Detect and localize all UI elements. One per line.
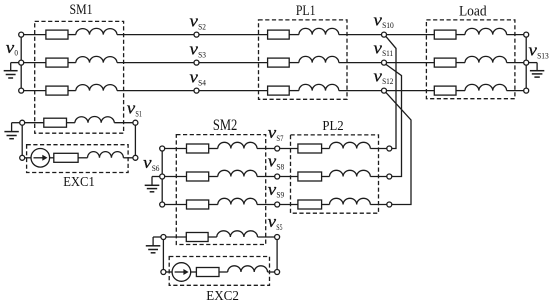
node label v0 (6, 38, 18, 58)
wire: ground G5 drop (152, 237, 154, 246)
svg-text:EXC1: EXC1 (63, 175, 95, 190)
wire: PL2 R2 to L2 (322, 176, 330, 178)
wire: node vS2 to PL1 phase 1 (199, 34, 268, 36)
svg-text:S4: S4 (198, 78, 206, 87)
resistor Load R2 (434, 58, 456, 67)
inductor SM1 L1 (76, 28, 117, 34)
svg-text:S8: S8 (276, 162, 284, 171)
inductor SM2 L3 (218, 198, 257, 204)
inductor SM2 field Lf (217, 231, 258, 237)
wire: SM1 phase 2 lead-in (21, 62, 46, 64)
wire: vS6 to ground G3 (152, 176, 160, 178)
wire: node vS8 to PL2 phase 2 (280, 176, 298, 178)
wire: PL2 phase 1 tie to node vS10 (386, 36, 396, 148)
svg-text:Load: Load (459, 3, 487, 20)
svg-text:PL2: PL2 (322, 119, 343, 134)
resistor PL2 R3 (298, 200, 322, 209)
node vS13 terminal phase 1 (524, 32, 529, 37)
wire: PL2 phase 1 output (370, 148, 387, 150)
wire: Load phase 1 to right bus vS13 (507, 34, 527, 36)
wire: SM1 phase 1 output to node vS2 (117, 34, 194, 36)
svg-text:SM2: SM2 (213, 117, 237, 134)
wire: EXC1 left terminal to source (25, 157, 31, 159)
svg-text:S12: S12 (382, 77, 393, 86)
wire: SM2 phase 2 output to node vS8 (257, 176, 275, 178)
inductor PL2 L1 (330, 142, 371, 148)
wire: v0 to ground G1 (11, 62, 19, 64)
node vS6 terminal phase 2 (160, 174, 165, 179)
node label vS10 (374, 10, 394, 30)
resistor PL2 R1 (298, 144, 322, 153)
resistor EXC1 Re (54, 153, 78, 162)
wire: node vS10 to Load phase 1 (387, 34, 435, 36)
node: PL2 phase 2 output terminal (387, 174, 392, 179)
wire: PL2 R3 to L3 (322, 204, 330, 206)
wire: SM1 field output to node vS1 (114, 122, 133, 124)
wire: PL2 phase 3 tie to node vS12 (386, 92, 411, 204)
node: PL2 phase 3 output terminal (387, 202, 392, 207)
inductor PL2 L3 (330, 198, 371, 204)
dashed box: synchronous machine SM1 (35, 21, 124, 133)
dashed box: power line PL2 (291, 135, 379, 213)
resistor Load R3 (434, 86, 456, 95)
dashed box: exciter EXC1 (27, 145, 129, 173)
wire: SM2 field left terminal down to EXC2 (162, 240, 164, 270)
wire: SM2 phase 1 lead-in (162, 148, 186, 150)
ground G2 (4, 132, 18, 139)
dashed box: power line PL1 (259, 20, 348, 99)
svg-text:S2: S2 (198, 22, 206, 31)
wire: PL2 phase 2 tie to node vS11 (386, 64, 402, 176)
wire: SM1 phase 3 output to node vS4 (117, 90, 194, 92)
inductor PL1 L2 (299, 56, 339, 62)
wire: SM1 R2 to L2 (68, 62, 76, 64)
wire: SM1 R1 to L1 (68, 34, 76, 36)
svg-text:S7: S7 (276, 134, 283, 143)
resistor EXC2 Re (196, 268, 219, 277)
wire: SM1 phase 1 lead-in (21, 34, 46, 36)
node vS6 terminal phase 3 (160, 202, 165, 207)
wire: SM2 field Rf to Lf (208, 236, 217, 238)
node label vS4 (190, 68, 206, 88)
wire: EXC2 Re to Le (219, 271, 228, 273)
wire: node vS4 to PL1 phase 3 (199, 90, 268, 92)
wire: SM2 field lead-in (166, 236, 186, 238)
inductor SM2 L1 (218, 142, 257, 148)
node: EXC1 right terminal (133, 155, 138, 160)
inductor PL2 L2 (330, 170, 371, 176)
wire: PL1 phase 1 output to node vS10 (339, 34, 382, 36)
wire: SM1 R3 to L3 (68, 90, 76, 92)
node label vS13 (529, 41, 549, 61)
node: SM1 field left terminal (20, 120, 25, 125)
wire: PL1 R2 to L2 (289, 62, 299, 64)
resistor SM2 R1 (187, 144, 209, 153)
node vS9 (275, 202, 280, 207)
inductor Load L1 (465, 28, 507, 34)
wire: node vS1 down to EXC1 (134, 125, 136, 155)
wire: SM1 field to ground G2 (12, 122, 20, 124)
svg-text:PL1: PL1 (296, 3, 316, 19)
svg-text:S1: S1 (135, 109, 142, 118)
wire: EXC1 source to Re (50, 157, 54, 159)
node label vS6 (143, 153, 159, 173)
inductor SM1 L3 (76, 84, 117, 90)
resistor SM2 R3 (187, 200, 209, 209)
svg-text:S9: S9 (276, 191, 284, 200)
inductor Load L2 (465, 56, 507, 62)
source EXC1 excitation source (31, 149, 50, 168)
node vS12 (382, 88, 387, 93)
svg-text:SM1: SM1 (70, 1, 93, 18)
inductor EXC1 Le (88, 152, 124, 158)
wire: Load R3 to L3 (456, 90, 465, 92)
resistor SM1 field Rf (44, 118, 67, 127)
node vS11 (382, 60, 387, 65)
resistor PL1 R2 (268, 58, 290, 67)
wire: EXC2 left terminal to source (166, 271, 172, 273)
inductor SM1 field Lf (75, 117, 114, 123)
resistor PL1 R3 (268, 86, 290, 95)
dashed box: Load (426, 20, 515, 99)
dashed box: synchronous machine SM2 (176, 135, 265, 245)
node vS3 (194, 60, 199, 65)
wire: left generator bus v0 (20, 35, 22, 91)
ground G1 (4, 71, 18, 78)
wire: ground G2 drop (11, 123, 13, 132)
node vS13 terminal phase 3 (524, 88, 529, 93)
wire: ground G1 drop (10, 63, 12, 71)
node v0 terminal phase 2 (19, 60, 24, 65)
wire: EXC2 output (268, 271, 275, 273)
node vS7 (275, 146, 280, 151)
node: SM2 field left terminal (161, 235, 166, 240)
wire: Load phase 3 to right bus vS13 (507, 90, 527, 92)
wire: SM2 phase 2 lead-in (162, 176, 186, 178)
wire: node vS11 to Load phase 2 (387, 62, 435, 64)
wire: SM2 field to ground G5 (153, 236, 161, 238)
wire: PL1 R1 to L1 (289, 34, 299, 36)
dashed box: exciter EXC2 (169, 257, 269, 286)
resistor PL2 R2 (298, 172, 322, 181)
node: EXC2 left terminal (161, 270, 166, 275)
resistor SM2 field Rf (186, 233, 208, 242)
wire: right load bus vS13 (525, 35, 527, 91)
node label vS3 (190, 40, 206, 60)
wire: SM2 phase 3 lead-in (162, 204, 186, 206)
node vS1 (133, 120, 138, 125)
node vS4 (194, 88, 199, 93)
resistor PL1 R1 (268, 30, 290, 39)
resistor SM1 R3 (46, 86, 68, 95)
node label vS1 (127, 99, 142, 119)
node label vS5 (268, 212, 283, 232)
node label vS12 (374, 66, 394, 86)
wire: SM1 field left terminal down to EXC1 (21, 125, 23, 155)
node vS6 terminal phase 1 (160, 146, 165, 151)
wire: node vS12 to Load phase 3 (387, 90, 435, 92)
inductor Load L3 (465, 84, 507, 90)
wire: Load R1 to L1 (456, 34, 465, 36)
wire: SM1 phase 2 output to node vS3 (117, 62, 194, 64)
wire: node vS3 to PL1 phase 2 (199, 62, 268, 64)
ground G4 (530, 71, 544, 77)
svg-text:0: 0 (14, 49, 18, 58)
node vS5 (275, 235, 280, 240)
wire: SM2 phase 1 output to node vS7 (257, 148, 275, 150)
svg-text:S3: S3 (198, 50, 206, 59)
node label vS2 (190, 12, 206, 32)
wire: SM1 field lead-in (25, 122, 44, 124)
resistor SM2 R2 (187, 172, 209, 181)
wire: ground G4 drop (536, 63, 538, 71)
resistor SM1 R2 (46, 58, 68, 67)
wire: SM2 R3 to L3 (209, 204, 218, 206)
wire: SM2 field output to node vS5 (258, 236, 275, 238)
wire: SM2 R1 to L1 (209, 148, 218, 150)
inductor PL1 L3 (299, 84, 339, 90)
wire: SM1 field Rf to Lf (67, 122, 75, 124)
resistor Load R1 (434, 30, 456, 39)
inductor EXC2 Le (228, 266, 268, 272)
wire: SM1 phase 3 lead-in (21, 90, 46, 92)
inductor PL1 L1 (299, 28, 339, 34)
node vS8 (275, 174, 280, 179)
svg-text:S6: S6 (152, 164, 160, 173)
resistor SM1 R1 (46, 30, 68, 39)
wire: node vS9 to PL2 phase 3 (280, 204, 298, 206)
node label vS9 (268, 180, 284, 200)
node v0 terminal phase 3 (19, 88, 24, 93)
node label vS11 (374, 38, 394, 58)
wire: SM2 R2 to L2 (209, 176, 218, 178)
wire: Load R2 to L2 (456, 62, 465, 64)
source EXC2 excitation source (172, 263, 191, 282)
svg-text:S5: S5 (276, 223, 282, 232)
node label vS7 (268, 123, 284, 143)
node v0 terminal phase 1 (19, 32, 24, 37)
node vS10 (382, 32, 387, 37)
ground G3 (145, 185, 160, 192)
wire: ground G3 drop (151, 177, 153, 186)
wire: EXC1 Re to Le (78, 157, 87, 159)
wire: PL1 phase 3 output to node vS12 (339, 90, 382, 92)
wire: left generator bus vS6 (161, 149, 163, 205)
node: EXC2 right terminal (275, 270, 280, 275)
wire: PL2 R1 to L1 (322, 148, 330, 150)
inductor SM1 L2 (76, 56, 117, 62)
wire: PL1 R3 to L3 (289, 90, 299, 92)
node: PL2 phase 1 output terminal (387, 146, 392, 151)
node: EXC1 left terminal (20, 155, 25, 160)
node vS2 (194, 32, 199, 37)
wire: EXC1 output (123, 157, 132, 159)
wire: PL1 phase 2 output to node vS11 (339, 62, 382, 64)
node vS13 terminal phase 2 (524, 60, 529, 65)
wire: Load phase 2 to right bus vS13 (507, 62, 527, 64)
wire: vS13 to ground G4 (529, 62, 537, 64)
ground G5 (146, 246, 161, 253)
svg-text:S11: S11 (382, 49, 393, 58)
svg-text:S10: S10 (382, 21, 394, 30)
wire: SM2 phase 3 output to node vS9 (257, 204, 275, 206)
wire: EXC2 source to Re (190, 271, 196, 273)
wire: node vS5 down to EXC2 (276, 240, 278, 270)
node label vS8 (268, 152, 284, 172)
svg-text:EXC2: EXC2 (206, 289, 239, 304)
wire: PL2 phase 3 output (370, 204, 387, 206)
svg-text:S13: S13 (537, 51, 549, 60)
wire: node vS7 to PL2 phase 1 (280, 148, 298, 150)
inductor SM2 L2 (218, 170, 257, 176)
wire: PL2 phase 2 output (370, 176, 387, 178)
